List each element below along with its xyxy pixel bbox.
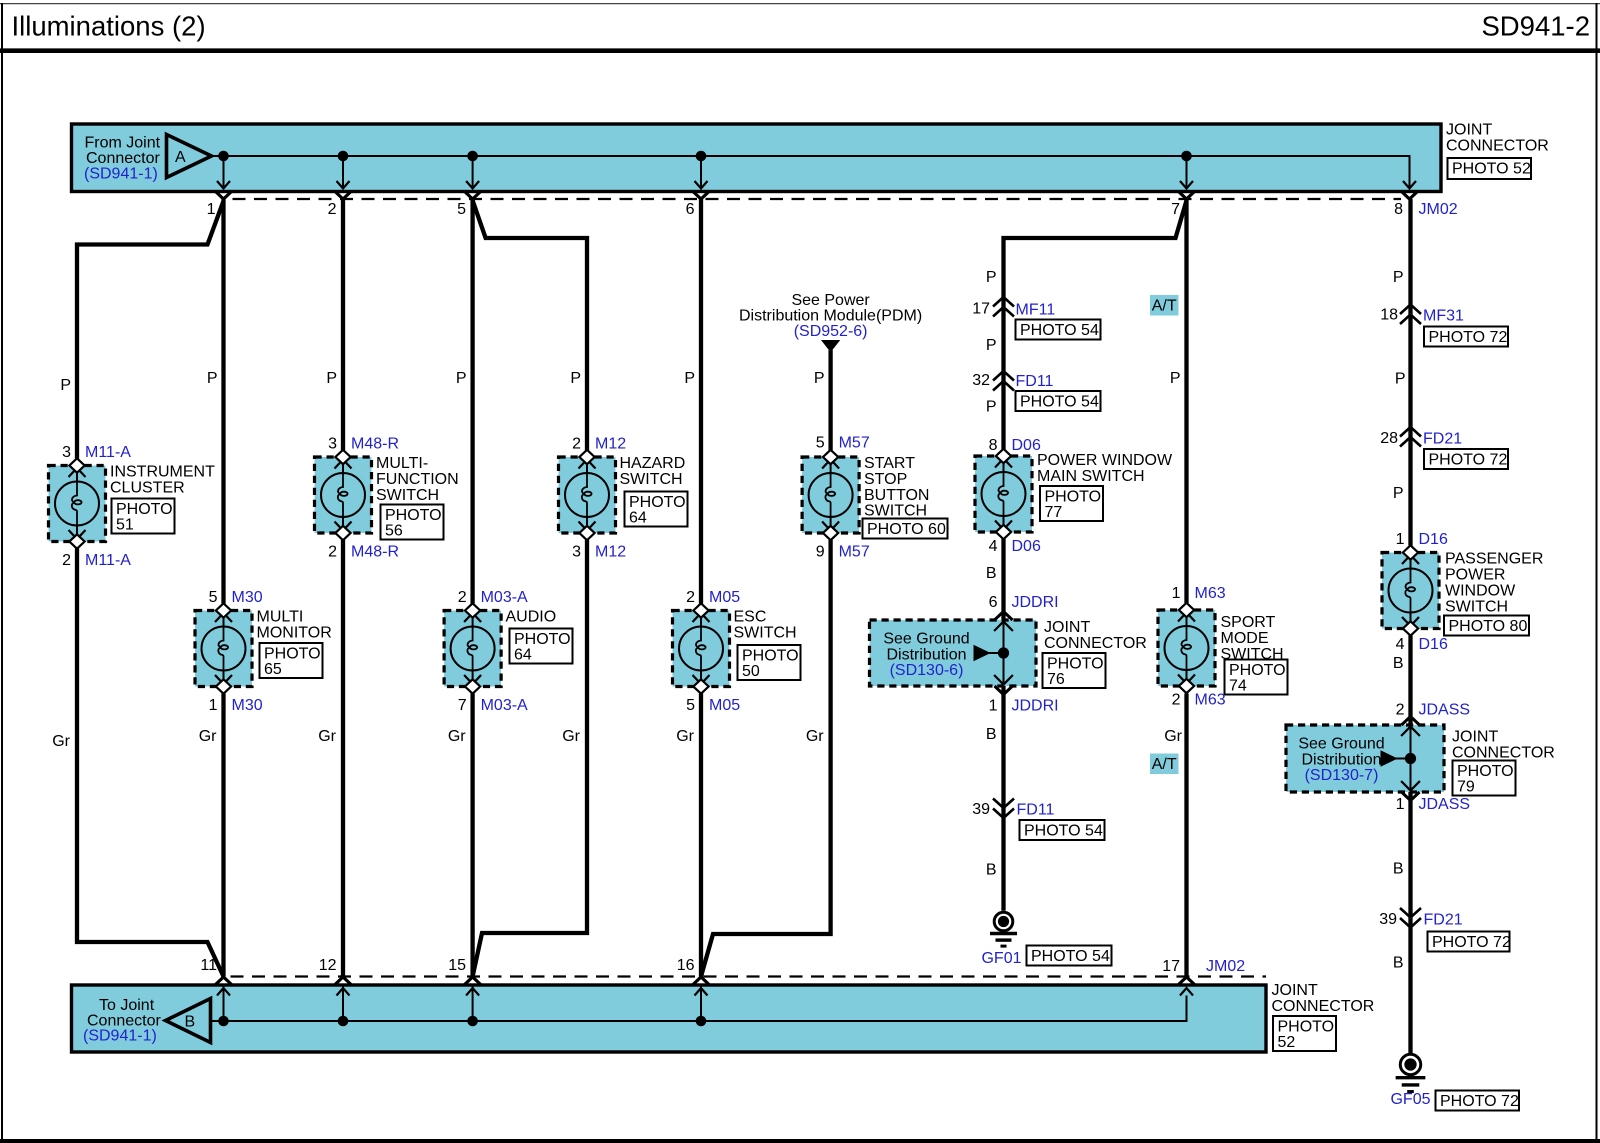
svg-text:11: 11 <box>200 957 217 974</box>
svg-text:2: 2 <box>1172 692 1181 709</box>
wire ESC switch to pin 16 <box>699 694 703 977</box>
svg-text:JOINT: JOINT <box>1272 982 1318 999</box>
photo 51 label <box>112 499 175 534</box>
photo 65 label <box>260 643 323 678</box>
connector FD21 pin 28 <box>1400 427 1421 437</box>
svg-text:5: 5 <box>209 589 218 606</box>
svg-text:76: 76 <box>1047 671 1065 688</box>
svg-text:5: 5 <box>686 697 695 714</box>
photo 72 label (FD21 39) <box>1428 932 1510 952</box>
svg-text:P: P <box>456 370 467 387</box>
bar A pin 8 <box>1401 191 1418 199</box>
svg-text:PHOTO: PHOTO <box>385 507 442 524</box>
wire start stop to pin 16 <box>701 540 831 977</box>
svg-text:79: 79 <box>1457 779 1475 796</box>
svg-text:M11-A: M11-A <box>85 444 131 461</box>
svg-text:M30: M30 <box>232 697 263 714</box>
svg-text:P: P <box>1170 370 1181 387</box>
photo 60 label <box>863 519 948 539</box>
bus dot pin 16 <box>696 1016 707 1027</box>
connector MF31 pin 18 <box>1400 305 1421 315</box>
lamp instrument cluster M11-A <box>49 466 106 542</box>
photo 50 label <box>738 645 801 680</box>
svg-text:P: P <box>684 370 695 387</box>
bar B bus wire <box>211 996 1187 1022</box>
svg-text:CLUSTER: CLUSTER <box>110 480 185 497</box>
svg-text:GF05: GF05 <box>1390 1091 1430 1108</box>
svg-text:1: 1 <box>209 697 218 714</box>
wire pin5 to audio <box>470 199 474 604</box>
triangle B <box>166 999 211 1043</box>
connector FD21 pin 39 <box>1400 918 1421 928</box>
wire JDDRI to ground GF01 <box>1001 686 1005 911</box>
svg-text:PHOTO: PHOTO <box>1047 656 1104 673</box>
svg-text:PHOTO 72: PHOTO 72 <box>1432 934 1511 951</box>
svg-text:12: 12 <box>319 957 337 974</box>
connector FD11 pin 32 <box>993 371 1014 381</box>
svg-text:MULTI: MULTI <box>257 609 304 626</box>
svg-text:2: 2 <box>458 589 467 606</box>
wire PDM to start stop button switch <box>828 350 832 450</box>
svg-text:56: 56 <box>385 523 403 540</box>
svg-text:74: 74 <box>1229 678 1247 695</box>
svg-text:INSTRUMENT: INSTRUMENT <box>110 464 215 481</box>
svg-text:P: P <box>326 370 337 387</box>
svg-text:M57: M57 <box>839 544 870 561</box>
svg-text:M57: M57 <box>839 435 870 452</box>
photo 72 label (FD21) <box>1424 449 1508 469</box>
svg-text:B: B <box>986 726 997 743</box>
svg-text:PHOTO: PHOTO <box>514 631 571 648</box>
svg-text:1: 1 <box>989 698 998 715</box>
bus dot pin 11 <box>218 1016 229 1027</box>
svg-text:B: B <box>986 565 997 582</box>
svg-text:M30: M30 <box>232 589 263 606</box>
svg-text:B: B <box>1393 655 1404 672</box>
svg-text:3: 3 <box>328 436 337 453</box>
svg-text:A: A <box>175 149 186 166</box>
svg-text:6: 6 <box>686 201 695 218</box>
svg-text:MONITOR: MONITOR <box>257 625 332 642</box>
svg-text:Connector: Connector <box>86 150 160 167</box>
svg-text:M48-R: M48-R <box>351 436 399 453</box>
svg-text:SWITCH: SWITCH <box>864 503 927 520</box>
bus dot pin 7 <box>1181 151 1192 162</box>
svg-text:PHOTO 72: PHOTO 72 <box>1429 452 1508 469</box>
svg-text:JOINT: JOINT <box>1044 619 1090 636</box>
svg-text:A/T: A/T <box>1152 756 1177 773</box>
svg-text:Distribution Module(PDM): Distribution Module(PDM) <box>739 308 922 325</box>
svg-text:D06: D06 <box>1012 538 1041 555</box>
svg-text:WINDOW: WINDOW <box>1445 583 1516 600</box>
svg-text:MF11: MF11 <box>1016 302 1056 319</box>
svg-text:6: 6 <box>989 594 998 611</box>
svg-text:A/T: A/T <box>1152 298 1177 315</box>
svg-text:AUDIO: AUDIO <box>506 609 557 626</box>
svg-text:Distribution: Distribution <box>1301 752 1381 769</box>
svg-text:M63: M63 <box>1195 585 1226 602</box>
svg-text:(SD952-6): (SD952-6) <box>794 323 868 340</box>
joint connector JDASS <box>1286 725 1444 792</box>
lamp multi-function switch M48-R <box>315 457 372 533</box>
svg-text:MULTI-: MULTI- <box>376 455 428 472</box>
svg-text:64: 64 <box>514 647 532 664</box>
svg-text:PASSENGER: PASSENGER <box>1445 551 1543 568</box>
svg-text:PHOTO: PHOTO <box>629 494 686 511</box>
svg-text:See Ground: See Ground <box>883 631 969 648</box>
PDM arrow <box>822 341 839 352</box>
svg-text:(SD130-6): (SD130-6) <box>890 662 964 679</box>
svg-text:JDDRI: JDDRI <box>1012 594 1059 611</box>
lamp sport mode switch M63 <box>1158 610 1215 686</box>
svg-text:CONNECTOR: CONNECTOR <box>1452 745 1555 762</box>
svg-text:ESC: ESC <box>734 609 767 626</box>
svg-text:39: 39 <box>972 801 990 818</box>
svg-text:M48-R: M48-R <box>351 544 399 561</box>
svg-text:M11-A: M11-A <box>85 552 131 569</box>
joint connector bar B (bottom) <box>72 985 1267 1052</box>
svg-text:5: 5 <box>457 201 466 218</box>
bar A pin 5 <box>472 156 474 187</box>
svg-text:(SD941-1): (SD941-1) <box>83 1028 157 1045</box>
wire pin8 down <box>1408 199 1412 546</box>
svg-text:M03-A: M03-A <box>481 589 528 606</box>
svg-text:P: P <box>1395 371 1406 388</box>
ground GF05 <box>1400 1054 1420 1074</box>
bar A pin 7 <box>1186 156 1188 187</box>
bar A bus wire <box>212 156 1410 187</box>
svg-text:JDASS: JDASS <box>1419 796 1471 813</box>
svg-text:7: 7 <box>458 697 467 714</box>
bus dot pin 5 <box>467 151 478 162</box>
svg-text:P: P <box>60 377 71 394</box>
svg-text:PHOTO 54: PHOTO 54 <box>1020 394 1099 411</box>
svg-text:Gr: Gr <box>1164 728 1182 745</box>
lamp power window main switch D06 <box>975 456 1032 532</box>
wire instrument cluster to pin 11 <box>77 549 224 977</box>
svg-text:SD941-2: SD941-2 <box>1481 11 1590 42</box>
wire pin6 to ESC switch <box>699 199 703 604</box>
svg-text:3: 3 <box>62 444 71 461</box>
svg-text:51: 51 <box>116 517 134 534</box>
photo 79 label <box>1453 761 1516 796</box>
svg-text:7: 7 <box>1171 201 1180 218</box>
svg-text:Gr: Gr <box>199 728 217 745</box>
svg-text:GF01: GF01 <box>981 950 1021 967</box>
wire pin2 to multi-function switch <box>341 199 345 450</box>
svg-text:8: 8 <box>989 437 998 454</box>
joint connector bar A (top) <box>72 124 1442 192</box>
svg-text:P: P <box>986 337 997 354</box>
svg-text:MF31: MF31 <box>1423 308 1464 325</box>
page frame left <box>1 3 3 1141</box>
svg-text:To Joint: To Joint <box>99 997 155 1014</box>
svg-text:B: B <box>1393 955 1404 972</box>
svg-text:2: 2 <box>572 436 581 453</box>
bus dot pin 12 <box>338 1016 349 1027</box>
svg-text:Gr: Gr <box>806 728 824 745</box>
svg-text:MAIN SWITCH: MAIN SWITCH <box>1037 468 1145 485</box>
svg-text:(SD941-1): (SD941-1) <box>84 166 158 183</box>
photo 72 label (MF31) <box>1424 327 1508 347</box>
lamp ESC switch M05 <box>673 611 730 687</box>
svg-text:PHOTO 54: PHOTO 54 <box>1020 322 1099 339</box>
A/T tag (bottom) <box>1150 754 1179 775</box>
svg-text:JDASS: JDASS <box>1419 702 1471 719</box>
svg-text:1: 1 <box>1396 796 1405 813</box>
bar A pin 1 <box>223 156 225 187</box>
svg-text:4: 4 <box>1396 636 1405 653</box>
bar B pin 12 <box>335 977 352 985</box>
page frame top <box>0 3 1600 5</box>
wire multi-function switch to pin 12 <box>341 540 345 977</box>
photo 52 label (top) <box>1448 158 1532 179</box>
svg-text:D16: D16 <box>1419 531 1448 548</box>
connector MF11 pin 17 <box>993 297 1014 307</box>
bar B pin 16 <box>693 977 710 985</box>
svg-text:JDDRI: JDDRI <box>1012 698 1059 715</box>
svg-text:PHOTO: PHOTO <box>264 646 321 663</box>
lamp passenger power window switch D16 <box>1382 553 1439 629</box>
photo 56 label <box>381 505 444 540</box>
photo 74 label <box>1225 660 1288 695</box>
svg-text:2: 2 <box>328 201 337 218</box>
bar B pin 15 <box>464 977 481 985</box>
svg-text:See Ground: See Ground <box>1298 736 1384 753</box>
svg-text:M12: M12 <box>595 436 626 453</box>
svg-text:STOP: STOP <box>864 471 907 488</box>
page frame right <box>1596 3 1598 1141</box>
svg-text:52: 52 <box>1278 1034 1296 1051</box>
svg-text:16: 16 <box>677 957 695 974</box>
JM02 dashed connector line (top) <box>233 198 1402 200</box>
wire D06 to JDDRI <box>1001 539 1005 620</box>
bus dot pin 2 <box>338 151 349 162</box>
svg-text:P: P <box>814 370 825 387</box>
connector FD11 pin 39 <box>993 809 1014 819</box>
svg-text:(SD130-7): (SD130-7) <box>1305 767 1379 784</box>
svg-text:3: 3 <box>572 544 581 561</box>
svg-text:2: 2 <box>328 544 337 561</box>
svg-text:HAZARD: HAZARD <box>620 455 686 472</box>
svg-text:CONNECTOR: CONNECTOR <box>1044 635 1147 652</box>
svg-text:START: START <box>864 455 915 472</box>
svg-text:PHOTO 54: PHOTO 54 <box>1031 948 1110 965</box>
svg-text:9: 9 <box>816 544 825 561</box>
svg-text:64: 64 <box>629 510 647 527</box>
svg-text:17: 17 <box>1162 958 1180 975</box>
svg-text:CONNECTOR: CONNECTOR <box>1272 998 1375 1015</box>
svg-text:Gr: Gr <box>318 728 336 745</box>
svg-text:18: 18 <box>1380 307 1398 324</box>
svg-text:M03-A: M03-A <box>481 697 528 714</box>
bar B pin 11 <box>215 977 232 985</box>
triangle A <box>167 135 212 178</box>
svg-text:PHOTO: PHOTO <box>1457 763 1514 780</box>
svg-text:B: B <box>1393 861 1404 878</box>
joint connector JDDRI <box>870 620 1037 686</box>
wire pin1 to instrument cluster <box>77 201 224 459</box>
photo 76 label <box>1043 653 1106 688</box>
photo 72 label (GF05) <box>1436 1091 1520 1111</box>
svg-text:SPORT: SPORT <box>1221 614 1276 631</box>
wire hazard switch to pin 15 <box>473 540 587 977</box>
svg-text:5: 5 <box>816 435 825 452</box>
bus dot pin 1 <box>218 151 229 162</box>
JM02 dashed connector line (bottom) <box>231 975 1267 977</box>
bus dot pin 15 <box>467 1016 478 1027</box>
svg-text:BUTTON: BUTTON <box>864 487 929 504</box>
svg-text:D16: D16 <box>1419 636 1448 653</box>
wire JDASS to ground GF05 <box>1408 792 1412 1054</box>
lamp audio M03-A <box>444 611 501 687</box>
svg-text:2: 2 <box>1396 702 1405 719</box>
svg-text:PHOTO: PHOTO <box>1229 662 1286 679</box>
A/T tag (top) <box>1150 295 1179 316</box>
photo 77 label <box>1040 486 1103 521</box>
ground GF01 <box>994 912 1013 931</box>
svg-text:P: P <box>986 399 997 416</box>
svg-text:P: P <box>207 370 218 387</box>
svg-text:Distribution: Distribution <box>886 647 966 664</box>
svg-text:PHOTO: PHOTO <box>1045 489 1102 506</box>
svg-text:POWER WINDOW: POWER WINDOW <box>1037 452 1173 469</box>
svg-text:17: 17 <box>972 301 990 318</box>
photo 54 label (FD11 39) <box>1020 820 1105 840</box>
lamp start stop button switch M57 <box>802 457 859 533</box>
svg-text:JOINT: JOINT <box>1452 729 1498 746</box>
wire pin5 to hazard switch <box>473 201 587 451</box>
svg-text:PHOTO: PHOTO <box>742 648 799 665</box>
svg-text:PHOTO: PHOTO <box>1278 1019 1335 1036</box>
svg-text:FD21: FD21 <box>1423 431 1462 448</box>
svg-text:1: 1 <box>207 201 216 218</box>
svg-text:JM02: JM02 <box>1419 201 1458 218</box>
svg-text:M12: M12 <box>595 544 626 561</box>
svg-text:FD21: FD21 <box>1424 912 1463 929</box>
svg-text:4: 4 <box>989 538 998 555</box>
svg-text:77: 77 <box>1045 504 1063 521</box>
svg-text:SWITCH: SWITCH <box>734 625 797 642</box>
svg-text:FD11: FD11 <box>1016 373 1054 390</box>
svg-text:JOINT: JOINT <box>1446 122 1492 139</box>
svg-text:P: P <box>570 370 581 387</box>
wire pin7 to sport mode switch <box>1184 199 1188 603</box>
bus dot pin 6 <box>696 151 707 162</box>
wire D16 to JDASS <box>1408 636 1412 726</box>
svg-text:B: B <box>986 862 997 879</box>
svg-text:Gr: Gr <box>52 733 70 750</box>
svg-text:1: 1 <box>1396 531 1405 548</box>
svg-text:1: 1 <box>1172 585 1181 602</box>
svg-text:P: P <box>986 269 997 286</box>
photo 80 label <box>1444 616 1529 636</box>
svg-text:2: 2 <box>686 589 695 606</box>
bar A pin 2 <box>342 156 344 187</box>
svg-text:M63: M63 <box>1195 692 1226 709</box>
svg-text:M05: M05 <box>709 697 740 714</box>
wire multi monitor to pin 11 <box>221 694 225 977</box>
svg-text:2: 2 <box>62 552 71 569</box>
wire sport mode to pin 17 <box>1184 694 1188 977</box>
svg-text:FUNCTION: FUNCTION <box>376 471 459 488</box>
svg-text:PHOTO 72: PHOTO 72 <box>1440 1093 1519 1110</box>
svg-text:PHOTO 52: PHOTO 52 <box>1452 161 1531 178</box>
svg-text:PHOTO: PHOTO <box>116 501 173 518</box>
photo 54 label (GF01) <box>1027 946 1112 966</box>
svg-text:SWITCH: SWITCH <box>1445 599 1508 616</box>
svg-text:SWITCH: SWITCH <box>376 487 439 504</box>
svg-text:P: P <box>1393 269 1404 286</box>
lamp multi monitor M30 <box>195 611 252 687</box>
photo 64 label (hazard) <box>625 492 688 527</box>
svg-text:50: 50 <box>742 663 760 680</box>
svg-text:32: 32 <box>972 372 990 389</box>
photo 64 label (audio) <box>510 629 573 664</box>
svg-text:From Joint: From Joint <box>85 135 161 152</box>
page frame bottom <box>0 1139 1600 1143</box>
bar A pin 6 <box>700 156 702 187</box>
svg-text:8: 8 <box>1394 201 1403 218</box>
svg-text:Illuminations (2): Illuminations (2) <box>12 11 206 42</box>
svg-text:Gr: Gr <box>448 728 466 745</box>
svg-text:FD11: FD11 <box>1017 802 1055 819</box>
bar B pin 17 <box>1178 977 1195 985</box>
svg-text:CONNECTOR: CONNECTOR <box>1446 138 1549 155</box>
svg-text:M05: M05 <box>709 589 740 606</box>
svg-text:65: 65 <box>264 661 282 678</box>
svg-text:PHOTO 72: PHOTO 72 <box>1429 329 1508 346</box>
svg-text:15: 15 <box>448 957 466 974</box>
wire pin1 to multi monitor <box>221 199 225 604</box>
svg-text:39: 39 <box>1379 911 1397 928</box>
photo 52 label (bottom) <box>1273 1016 1336 1051</box>
svg-text:MODE: MODE <box>1221 630 1269 647</box>
svg-text:SWITCH: SWITCH <box>620 471 683 488</box>
svg-text:Gr: Gr <box>676 728 694 745</box>
lamp hazard switch M12 <box>559 457 616 533</box>
svg-text:PHOTO 54: PHOTO 54 <box>1024 823 1103 840</box>
wire pin7 to power window main switch column <box>1004 201 1187 450</box>
svg-text:See Power: See Power <box>791 292 870 309</box>
svg-text:28: 28 <box>1380 430 1398 447</box>
wire audio to pin 15 <box>470 694 474 977</box>
svg-text:Gr: Gr <box>562 728 580 745</box>
svg-text:PHOTO 80: PHOTO 80 <box>1449 618 1528 635</box>
photo 54 label (MF11) <box>1016 320 1101 340</box>
svg-text:B: B <box>185 1014 196 1031</box>
svg-text:POWER: POWER <box>1445 567 1505 584</box>
svg-text:JM02: JM02 <box>1206 958 1245 975</box>
svg-text:P: P <box>1393 485 1404 502</box>
header rule <box>0 48 1600 53</box>
svg-text:PHOTO 60: PHOTO 60 <box>867 521 946 538</box>
photo 54 label (FD11) <box>1016 391 1101 411</box>
